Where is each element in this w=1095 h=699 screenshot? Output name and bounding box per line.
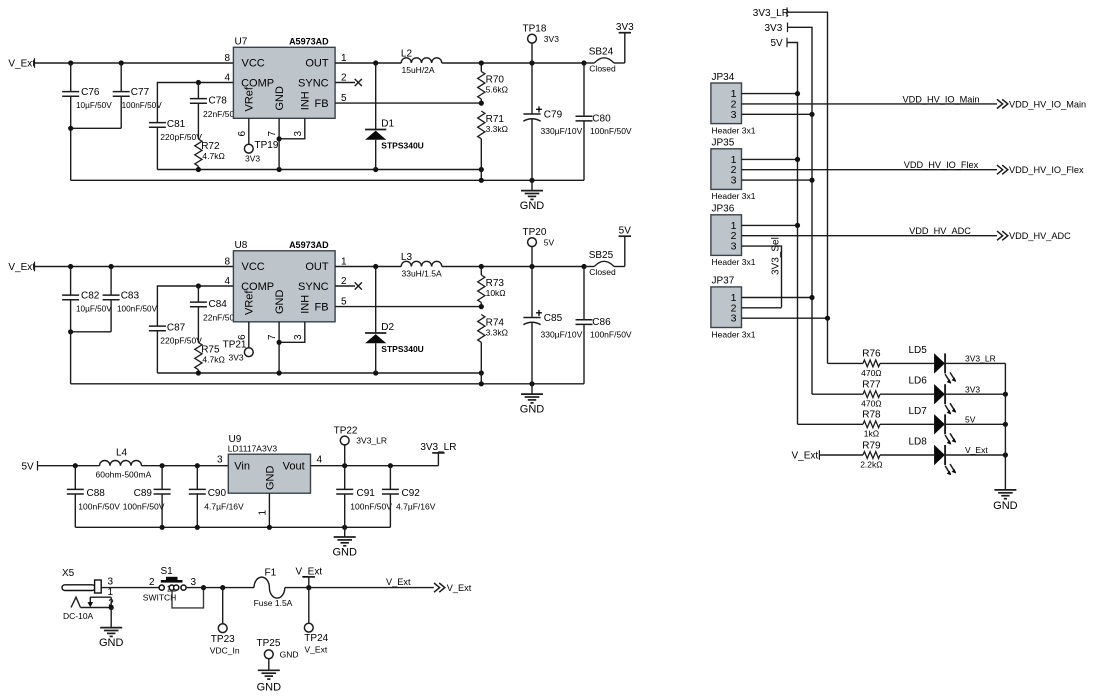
wire left gnd drop: [70, 128, 72, 180]
wire JP36.1 to 5V bus: [742, 223, 801, 228]
pin 8 label: [224, 257, 230, 268]
svg-text:VRef: VRef: [244, 86, 256, 111]
svg-text:3V3_LR: 3V3_LR: [356, 436, 387, 446]
wire L to output node: [442, 264, 587, 269]
ground: [99, 608, 124, 649]
svg-text:470Ω: 470Ω: [861, 399, 882, 409]
svg-text:INH: INH: [300, 295, 312, 314]
svg-text:F1: F1: [265, 567, 277, 578]
pin 1 label: [258, 510, 269, 516]
wire JP37.2 to 3V3_Sel: [742, 307, 782, 309]
testpoint TP23: [210, 588, 240, 656]
junction: [109, 605, 114, 610]
resistor R74: [478, 315, 508, 374]
wire 5V to L4: [38, 463, 100, 468]
inductor L2: [401, 48, 442, 75]
svg-text:C80: C80: [592, 114, 611, 125]
wire bus to R76: [828, 362, 864, 364]
resistor R78: [862, 410, 881, 439]
net label 5V (U9 input): [22, 461, 38, 472]
svg-text:5.6kΩ: 5.6kΩ: [486, 85, 508, 95]
svg-text:R76: R76: [862, 349, 881, 360]
wire R78 to LD7: [880, 423, 934, 425]
diode D1 STPS340U: [365, 63, 424, 170]
svg-text:STPS340U: STPS340U: [381, 344, 424, 354]
svg-text:3V3: 3V3: [229, 353, 244, 363]
svg-text:+: +: [536, 308, 543, 320]
svg-text:2.2kΩ: 2.2kΩ: [860, 459, 882, 469]
net arrow V_Ext: [434, 583, 472, 593]
capacitor C85 (polarized): [523, 267, 582, 384]
svg-text:220pF/50V: 220pF/50V: [160, 335, 202, 345]
svg-text:Header 3x1: Header 3x1: [712, 257, 756, 267]
svg-text:C77: C77: [131, 87, 150, 98]
svg-text:3V3_LR: 3V3_LR: [965, 354, 996, 364]
wire JP34.2 VDD_HV_IO_Main: [742, 94, 998, 104]
svg-text:VDC_In: VDC_In: [210, 645, 240, 655]
svg-text:3V3: 3V3: [765, 23, 783, 34]
svg-text:GND: GND: [520, 403, 545, 415]
capacitor C81: [149, 119, 202, 170]
svg-text:100nF/50V: 100nF/50V: [123, 501, 165, 511]
wire FB net: [335, 101, 484, 106]
svg-text:TP22: TP22: [334, 425, 358, 436]
wire V_Ext to R79: [819, 454, 863, 456]
svg-text:3: 3: [217, 455, 223, 466]
ground: [993, 490, 1018, 512]
svg-text:JP34: JP34: [712, 72, 735, 83]
svg-text:3: 3: [191, 577, 197, 588]
svg-text:100nF/50V: 100nF/50V: [122, 101, 163, 110]
svg-text:FB: FB: [315, 98, 329, 110]
pin 5 label: [341, 297, 347, 308]
svg-text:3V3_LR: 3V3_LR: [753, 8, 789, 19]
resistor R77: [861, 380, 882, 409]
resistor R76: [861, 349, 882, 378]
svg-text:3V3: 3V3: [544, 34, 559, 44]
svg-text:8: 8: [224, 53, 230, 64]
svg-text:3.3kΩ: 3.3kΩ: [486, 328, 508, 338]
svg-text:GND: GND: [274, 86, 286, 111]
svg-text:FB: FB: [315, 301, 329, 313]
svg-text:C85: C85: [544, 313, 563, 324]
svg-text:LD7: LD7: [909, 406, 928, 417]
pin 3 label: [293, 334, 304, 340]
power 3V3: [616, 22, 634, 63]
solder bridge SB25: [584, 250, 625, 277]
fuse F1 1.5A: [254, 567, 293, 608]
junction: [68, 264, 73, 269]
svg-text:U7: U7: [235, 37, 248, 48]
svg-text:Closed: Closed: [589, 64, 616, 74]
junction: [196, 283, 201, 288]
svg-text:C81: C81: [167, 119, 186, 130]
svg-text:330µF/10V: 330µF/10V: [541, 126, 583, 136]
svg-text:L4: L4: [116, 447, 128, 458]
svg-text:GND: GND: [274, 290, 286, 315]
pin 4 label: [224, 73, 230, 84]
wire R76 to LD5: [880, 362, 934, 364]
svg-text:SB24: SB24: [589, 47, 614, 58]
svg-text:1: 1: [258, 510, 269, 516]
svg-text:10kΩ: 10kΩ: [486, 288, 506, 298]
wire rail A to rail B drop: [480, 170, 482, 181]
net label 3V3_Sel: [771, 237, 782, 275]
svg-text:Header 3x1: Header 3x1: [712, 329, 756, 339]
svg-text:C87: C87: [167, 323, 186, 334]
wire cap join rail: [68, 329, 111, 334]
wire rail B (ground rail): [71, 178, 584, 183]
testpoint TP21: [223, 339, 254, 362]
pin 2 label: [341, 276, 347, 287]
junction: [201, 585, 206, 590]
svg-text:L2: L2: [401, 48, 413, 59]
svg-text:TP19: TP19: [255, 140, 279, 151]
wire rail A: [157, 167, 484, 172]
svg-text:VDD_HV_ADC: VDD_HV_ADC: [909, 226, 971, 236]
svg-text:TP21: TP21: [223, 339, 247, 350]
wire cap join rail: [68, 126, 121, 131]
svg-text:C92: C92: [402, 488, 421, 499]
header JP35 3x1: [711, 138, 756, 202]
svg-text:3V3_Sel: 3V3_Sel: [771, 237, 782, 275]
wire rail B (ground rail): [71, 381, 584, 386]
capacitor C83: [103, 267, 158, 332]
wire S1 bypass loop: [172, 588, 204, 608]
wire JP37.3 to 3V3_LR bus: [742, 316, 831, 321]
svg-text:A5973AD: A5973AD: [289, 240, 329, 250]
svg-text:C88: C88: [87, 488, 106, 499]
junction: [1003, 392, 1008, 397]
capacitor C87: [149, 323, 202, 374]
wire S1 to F1: [186, 585, 254, 590]
net label 3V3_LR (top): [753, 7, 789, 19]
power 5V: [619, 225, 632, 266]
svg-text:4: 4: [224, 276, 230, 287]
svg-text:C84: C84: [209, 299, 228, 310]
LED LD6: [909, 376, 981, 415]
svg-text:Vout: Vout: [283, 461, 305, 473]
wire LD7 cathode: [945, 423, 1005, 425]
pin 7 label: [267, 131, 278, 137]
svg-text:JP37: JP37: [712, 276, 735, 287]
testpoint TP24: [304, 588, 328, 655]
capacitor C77: [113, 63, 162, 128]
svg-text:VDD_HV_IO_Flex: VDD_HV_IO_Flex: [1009, 165, 1084, 175]
capacitor C90: [189, 466, 244, 528]
svg-text:U8: U8: [235, 240, 248, 251]
svg-text:4.7kΩ: 4.7kΩ: [202, 355, 224, 365]
wire COMP net: [157, 83, 233, 123]
svg-text:JP35: JP35: [712, 138, 735, 149]
svg-text:3V3: 3V3: [616, 22, 634, 33]
pin 8 label: [224, 53, 230, 64]
ground: [257, 670, 282, 693]
svg-text:4.7µF/16V: 4.7µF/16V: [396, 501, 436, 511]
capacitor C80: [576, 63, 632, 180]
pin 6 label: [237, 334, 248, 340]
svg-text:OUT: OUT: [305, 58, 329, 70]
svg-text:100nF/50V: 100nF/50V: [117, 304, 158, 313]
svg-text:4: 4: [317, 455, 323, 466]
testpoint TP20: [523, 227, 555, 266]
svg-text:5V: 5V: [22, 461, 35, 472]
svg-text:GND: GND: [99, 637, 124, 649]
svg-text:LD1117A3V3: LD1117A3V3: [228, 443, 278, 453]
net arrow VDD_HV_ADC: [997, 231, 1071, 241]
svg-text:JP36: JP36: [712, 204, 735, 215]
svg-text:GND: GND: [520, 200, 545, 212]
svg-text:TP23: TP23: [211, 634, 235, 645]
switch S1: [143, 566, 197, 603]
svg-text:5V: 5V: [965, 415, 976, 425]
capacitor C79 (polarized): [523, 63, 582, 180]
wire JP34.1 to 5V bus: [742, 91, 801, 96]
wire LED common to ground: [1004, 363, 1006, 490]
svg-text:LD5: LD5: [909, 345, 928, 356]
svg-text:C82: C82: [81, 291, 100, 302]
svg-text:10µF/50V: 10µF/50V: [76, 101, 112, 110]
svg-text:+: +: [536, 105, 543, 117]
ground: [520, 180, 545, 212]
svg-text:3: 3: [731, 175, 737, 187]
svg-text:V_Ext: V_Ext: [386, 577, 411, 587]
svg-text:Header 3x1: Header 3x1: [712, 125, 756, 135]
wire X5 to S1: [101, 587, 159, 589]
wire COMP net: [157, 286, 233, 326]
diode D2 STPS340U: [365, 267, 424, 374]
svg-text:4: 4: [224, 73, 230, 84]
svg-text:TP25: TP25: [257, 638, 281, 649]
svg-text:VDD_HV_IO_Flex: VDD_HV_IO_Flex: [904, 160, 979, 170]
svg-text:C90: C90: [208, 488, 227, 499]
svg-text:3V3: 3V3: [965, 384, 980, 394]
testpoint TP18: [523, 24, 560, 63]
svg-text:470Ω: 470Ω: [861, 368, 882, 378]
svg-text:100nF/50V: 100nF/50V: [350, 501, 392, 511]
svg-text:8: 8: [224, 257, 230, 268]
svg-text:100nF/50V: 100nF/50V: [590, 126, 632, 136]
wire V_Ext rail to U7 VCC: [35, 62, 234, 64]
svg-text:V_Ext: V_Ext: [8, 59, 35, 70]
svg-text:X5: X5: [62, 568, 75, 579]
svg-text:SYNC: SYNC: [298, 78, 329, 90]
pin 2 label: [341, 73, 347, 84]
wire L4 to U9 Vin: [142, 463, 229, 468]
svg-text:C83: C83: [121, 291, 140, 302]
svg-text:SB25: SB25: [589, 250, 614, 261]
svg-text:GND: GND: [264, 466, 276, 491]
svg-text:C76: C76: [81, 87, 100, 98]
wire INH to GND pin: [279, 118, 305, 139]
svg-text:VDD_HV_ADC: VDD_HV_ADC: [1009, 231, 1071, 241]
junction: [1003, 422, 1008, 427]
header JP34 3x1: [711, 72, 756, 136]
wire 3V3 feed: [788, 27, 813, 394]
svg-text:3: 3: [731, 109, 737, 121]
junction: [196, 80, 201, 85]
LED LD5: [909, 345, 996, 384]
wire L to output node: [442, 60, 587, 65]
svg-text:R79: R79: [862, 440, 881, 451]
wire 3V3_LR feed: [787, 12, 828, 363]
pin 5 label: [341, 93, 347, 104]
svg-text:1: 1: [108, 587, 114, 598]
svg-text:S1: S1: [161, 566, 174, 577]
svg-text:15uH/2A: 15uH/2A: [402, 65, 435, 75]
junction: [306, 585, 311, 590]
resistor R71: [478, 111, 508, 170]
pin 4 label: [317, 455, 323, 466]
svg-text:V_Ext: V_Ext: [8, 262, 35, 273]
svg-text:10µF/50V: 10µF/50V: [76, 304, 112, 313]
ground: [332, 527, 357, 558]
pin 6 label: [237, 131, 248, 137]
svg-text:3: 3: [293, 334, 304, 340]
svg-text:330µF/10V: 330µF/10V: [541, 330, 583, 340]
header JP36 3x1: [711, 204, 756, 268]
svg-text:5V: 5V: [771, 38, 784, 49]
svg-text:INH: INH: [300, 91, 312, 110]
wire U9 GND pin: [268, 493, 270, 527]
pin 7 label: [267, 334, 278, 340]
wire LD5 cathode: [945, 362, 1005, 364]
inductor L4: [96, 447, 152, 479]
svg-text:SYNC: SYNC: [298, 281, 329, 293]
svg-text:VDD_HV_IO_Main: VDD_HV_IO_Main: [1009, 99, 1086, 109]
svg-text:GND: GND: [280, 650, 299, 660]
svg-text:LD6: LD6: [909, 376, 928, 387]
capacitor C86: [576, 267, 632, 384]
net arrow VDD_HV_IO_Main: [997, 99, 1086, 109]
wire JP35.1 to 5V bus: [742, 157, 801, 162]
svg-text:Fuse 1.5A: Fuse 1.5A: [254, 598, 293, 608]
svg-text:5V: 5V: [619, 225, 632, 236]
wire GND pin to rail A: [277, 322, 282, 373]
wire FB net: [335, 304, 484, 309]
svg-text:D1: D1: [381, 118, 394, 129]
svg-text:C79: C79: [544, 109, 563, 120]
capacitor C89: [123, 466, 171, 528]
svg-text:Vin: Vin: [234, 461, 250, 473]
svg-text:C89: C89: [134, 488, 153, 499]
resistor R72: [195, 139, 225, 170]
svg-text:C91: C91: [357, 488, 376, 499]
svg-text:A5973AD: A5973AD: [289, 37, 329, 47]
ground: [520, 384, 545, 416]
capacitor C88: [67, 466, 120, 528]
wire LDO ground rail: [75, 525, 390, 530]
svg-text:C86: C86: [592, 317, 611, 328]
wire JP37.1 to 3V3 bus: [742, 295, 815, 300]
wire R79 to LD8: [880, 454, 934, 456]
capacitor C91: [336, 466, 392, 528]
pin 4 label: [224, 276, 230, 287]
svg-text:R78: R78: [862, 410, 881, 421]
svg-text:GND: GND: [332, 546, 357, 558]
svg-text:33uH/1.5A: 33uH/1.5A: [402, 269, 442, 279]
inductor L3: [401, 252, 442, 279]
svg-text:7: 7: [267, 334, 278, 340]
wire JP36.3 3V3_Sel: [742, 246, 782, 307]
svg-text:100nF/50V: 100nF/50V: [590, 330, 632, 340]
capacitor C84: [190, 286, 240, 343]
wire OUT to L2: [335, 60, 401, 65]
capacitor C82: [62, 267, 112, 332]
svg-text:VCC: VCC: [242, 58, 265, 70]
svg-text:3: 3: [731, 241, 737, 253]
testpoint TP19: [244, 140, 278, 164]
svg-text:TP24: TP24: [304, 633, 328, 644]
power V_Ext: [295, 566, 322, 587]
pin 1 label: [341, 53, 347, 64]
wire VRef to TP21: [248, 322, 250, 348]
svg-text:V_Ext: V_Ext: [447, 583, 472, 593]
net arrow VDD_HV_IO_Flex: [997, 165, 1084, 175]
svg-text:100nF/50V: 100nF/50V: [78, 501, 120, 511]
wire JP36.2 VDD_HV_ADC: [742, 226, 998, 236]
header JP37 3x1: [711, 276, 756, 340]
wire left gnd drop: [70, 332, 72, 384]
wire bus to R78: [798, 423, 864, 425]
testpoint TP25: [257, 638, 299, 670]
wire R77 to LD6: [880, 393, 934, 395]
wire JP35.3 to 3V3 bus: [742, 178, 815, 183]
junction: [109, 264, 114, 269]
capacitor C78: [190, 83, 240, 140]
wire 5V feed: [787, 43, 798, 425]
svg-text:C78: C78: [209, 95, 228, 106]
net label 5V (top): [771, 38, 788, 50]
svg-text:1kΩ: 1kΩ: [864, 429, 879, 439]
capacitor C92: [382, 466, 436, 528]
wire V_Ext rail to U8 VCC: [35, 266, 234, 268]
net label V_Ext (U8 input): [8, 262, 35, 273]
net label V_Ext (U7 input): [8, 58, 35, 69]
junction: [1003, 452, 1008, 457]
svg-text:OUT: OUT: [305, 261, 329, 273]
svg-text:3: 3: [731, 313, 737, 325]
svg-text:5V: 5V: [544, 237, 555, 247]
svg-text:DC-10A: DC-10A: [63, 611, 94, 621]
wire INH to GND pin: [279, 322, 305, 343]
regulator U7 A5973AD: [233, 37, 335, 119]
wire LD6 cathode: [945, 393, 1005, 395]
pin 3 label: [293, 131, 304, 137]
wire GND pin to rail A: [277, 118, 282, 169]
svg-text:220pF/50V: 220pF/50V: [160, 132, 202, 142]
net label V_Ext (LED feed): [792, 450, 820, 461]
wire F1 to V_Ext node: [285, 587, 309, 589]
resistor R79: [860, 440, 882, 469]
svg-text:Closed: Closed: [589, 267, 616, 277]
svg-text:3V3_LR: 3V3_LR: [420, 442, 456, 453]
svg-text:VDD_HV_IO_Main: VDD_HV_IO_Main: [902, 94, 979, 104]
svg-text:60ohm-500mA: 60ohm-500mA: [96, 469, 152, 479]
wire Vout net: [311, 463, 439, 468]
svg-text:V_Ext: V_Ext: [965, 445, 988, 455]
svg-text:3.3kΩ: 3.3kΩ: [486, 124, 508, 134]
LED LD8: [909, 437, 989, 476]
resistor R75: [195, 343, 225, 374]
svg-text:LD8: LD8: [909, 437, 928, 448]
svg-text:V_Ext: V_Ext: [305, 645, 328, 655]
junction: [119, 60, 124, 65]
svg-text:6: 6: [237, 131, 248, 137]
svg-text:GND: GND: [993, 500, 1018, 512]
resistor R70: [478, 63, 508, 103]
svg-text:4.7µF/16V: 4.7µF/16V: [204, 501, 244, 511]
